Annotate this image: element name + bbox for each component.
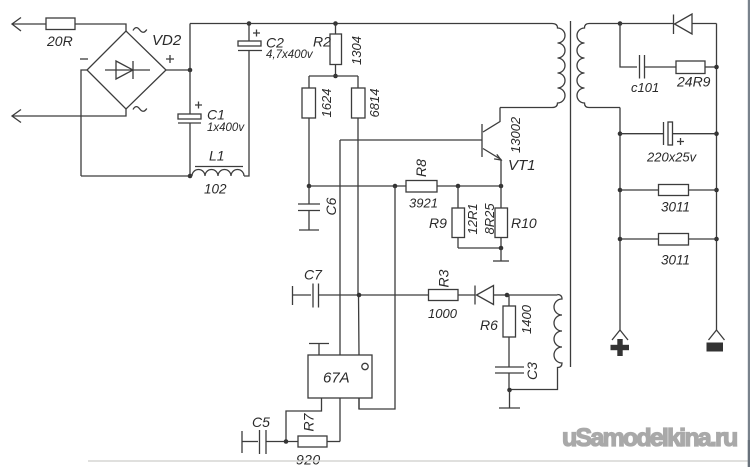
inductor L1 [192, 148, 244, 197]
capacitor 220x25v [618, 122, 719, 165]
ground under R10 [493, 248, 509, 261]
wire [12, 109, 126, 116]
bottom rule line [88, 460, 748, 462]
wire feedback line y186 [309, 185, 406, 187]
svg-text:R2: R2 [313, 34, 331, 50]
svg-text:20R: 20R [46, 33, 73, 49]
svg-text:R3: R3 [436, 269, 452, 287]
svg-text:VD2: VD2 [152, 32, 182, 49]
node R10 bottom [499, 246, 504, 251]
svg-text:R6: R6 [480, 317, 498, 333]
resistor R2 [313, 21, 364, 76]
transformer feedback winding [510, 295, 563, 390]
resistor 3011 first [618, 185, 719, 215]
capacitor C5 [242, 414, 298, 454]
wire down to C1 [189, 70, 191, 114]
svg-text:1x400v: 1x400v [207, 122, 245, 134]
wire bottom rail [81, 175, 192, 177]
svg-text:1304: 1304 [349, 36, 364, 65]
resistor R3 [428, 269, 458, 321]
right edge border [748, 0, 750, 467]
node 24R9 right [714, 65, 719, 70]
svg-text:C1: C1 [207, 107, 225, 123]
svg-text:R7: R7 [301, 412, 317, 431]
svg-text:c101: c101 [631, 80, 659, 95]
svg-text:3011: 3011 [661, 253, 690, 268]
pin bottom right [358, 398, 360, 409]
svg-text:C5: C5 [252, 414, 270, 430]
resistor 6814 [352, 76, 383, 355]
svg-text:102: 102 [204, 182, 227, 197]
svg-text:4,7x400v: 4,7x400v [266, 49, 314, 61]
svg-text:3011: 3011 [661, 200, 690, 215]
wire [12, 23, 46, 25]
output terminal minus [707, 330, 725, 352]
node C5 R7 [284, 439, 289, 444]
svg-text:6814: 6814 [367, 89, 382, 118]
ground under C3 [499, 390, 520, 408]
resistor R7 [296, 412, 340, 467]
svg-text:C6: C6 [323, 197, 339, 215]
wire R9 R10 bottom [458, 247, 501, 249]
svg-text:C7: C7 [304, 267, 323, 283]
wire right rail [716, 24, 718, 331]
capacitor C3 [495, 362, 540, 390]
capacitor C6 [298, 186, 339, 230]
node base line left [307, 184, 312, 189]
bridge rectifier VD2 [80, 28, 182, 112]
svg-text:920: 920 [296, 452, 321, 467]
pin bottom middle to R7 [339, 398, 341, 442]
node secondary top [618, 21, 623, 26]
wire secondary bottom column [619, 108, 621, 331]
node C2 top [247, 21, 252, 26]
transformer primary winding [500, 24, 565, 108]
wire bridge minus to bottom rail [81, 70, 87, 176]
wire bridge plus to node [166, 69, 190, 71]
resistor R10 [482, 186, 537, 248]
capacitor C7 [293, 267, 429, 308]
pin bar top left [309, 344, 329, 356]
node R2 bottom [333, 74, 338, 79]
transformer core [570, 21, 572, 367]
input terminal arrow top [12, 18, 46, 32]
svg-text:24R9: 24R9 [676, 74, 711, 90]
node C3 bottom [507, 388, 512, 393]
wire L1 to C2 bottom [244, 51, 249, 176]
svg-text:1400: 1400 [519, 304, 534, 334]
resistor 3011 second [618, 234, 719, 268]
input terminal arrow bottom [12, 109, 126, 123]
transistor VT1 [482, 108, 536, 187]
wire to feedback winding [507, 294, 558, 296]
wire top rail [190, 23, 552, 25]
svg-text:220x25v: 220x25v [646, 150, 698, 165]
wire x395 down [359, 186, 395, 409]
node at x395 [393, 184, 398, 189]
pin bottom left to C5 [286, 398, 322, 442]
svg-text:VT1: VT1 [508, 157, 536, 174]
resistor 24R9 [676, 61, 717, 90]
resistor R-fuse 20R [46, 18, 75, 49]
node R6 top [505, 293, 510, 298]
svg-text:67A: 67A [323, 370, 350, 387]
svg-text:R8: R8 [413, 159, 429, 177]
node C7 line x359 [357, 293, 362, 298]
output terminal plus [611, 330, 630, 356]
node emitter [499, 184, 504, 189]
wire up to top rail [189, 24, 191, 71]
svg-text:12R1: 12R1 [465, 203, 480, 234]
capacitor c101 [620, 24, 676, 96]
resistor R6 [480, 295, 534, 367]
svg-text:1000: 1000 [428, 306, 458, 321]
svg-text:C3: C3 [524, 362, 540, 380]
transformer secondary winding [577, 24, 620, 108]
resistor 1624 [302, 76, 334, 186]
svg-text:3921: 3921 [409, 196, 438, 211]
node VD2+ [188, 68, 193, 73]
capacitor C1 [178, 102, 245, 177]
wire R8 to emitter [437, 185, 501, 187]
wire sub rail [309, 75, 358, 77]
svg-text:L1: L1 [209, 148, 225, 164]
node C1 bottom [188, 174, 193, 179]
wire base drive [340, 140, 482, 355]
svg-text:uSamodelkina.ru: uSamodelkina.ru [562, 424, 737, 452]
svg-text:8R25: 8R25 [482, 203, 497, 235]
svg-text:1624: 1624 [319, 89, 334, 118]
output diode [620, 14, 717, 34]
resistor R8 [406, 159, 438, 211]
diode feedback [458, 286, 507, 305]
capacitor C2 [238, 24, 314, 62]
svg-text:R10: R10 [511, 215, 537, 231]
wire to bridge top [75, 24, 126, 31]
IC 67A [308, 355, 372, 398]
svg-text:13002: 13002 [508, 116, 523, 153]
resistor R9 [429, 186, 480, 248]
svg-text:R9: R9 [429, 215, 447, 231]
node R9 top [456, 184, 461, 189]
